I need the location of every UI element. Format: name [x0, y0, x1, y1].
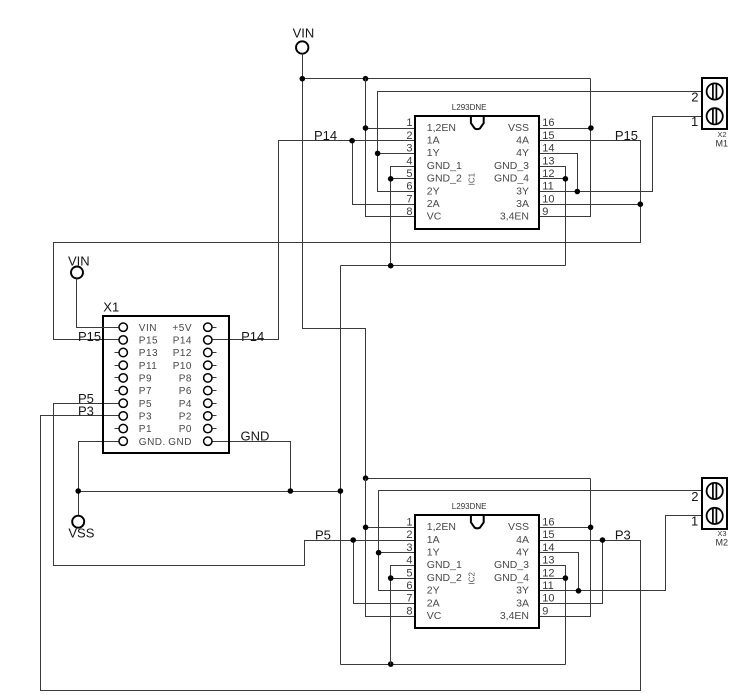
junction IC2 ground bus	[388, 661, 394, 667]
pin circle X1 right row P8	[204, 374, 212, 382]
svg-text:11: 11	[542, 580, 553, 592]
junction at IC2 pin12	[563, 575, 569, 581]
wire P15 branch IC1 pin10 (3A)	[540, 204, 641, 206]
svg-text:P5: P5	[139, 399, 152, 410]
svg-text:P14: P14	[314, 128, 337, 143]
svg-text:GND_2: GND_2	[427, 173, 462, 185]
X3 screw slot 1	[713, 508, 717, 524]
junction VIN at IC2 left column	[363, 475, 369, 481]
wire IC2 pin12 GND_4 stub	[540, 578, 566, 580]
wire IC1 pin4 GND_1 riser	[391, 167, 416, 266]
svg-text:VSS: VSS	[508, 521, 529, 533]
svg-text:P3: P3	[139, 412, 152, 423]
svg-text:8: 8	[406, 605, 412, 617]
svg-text:15: 15	[542, 130, 554, 142]
svg-text:2A: 2A	[427, 198, 440, 210]
junction P15 at IC1 pin10	[638, 201, 644, 207]
junction at IC1 pin1	[363, 125, 369, 131]
wire P5 from X1 pin P5 around left to IC2 pin2 (1A)	[54, 404, 416, 566]
svg-text:VC: VC	[427, 610, 442, 622]
svg-text:12: 12	[542, 168, 554, 180]
wire VIN to IC1 pin1 and pin8 (1,2EN / VC)	[366, 79, 416, 217]
pin circle X1 right row P12	[204, 348, 212, 356]
wire X2 pin1 to IC1 pin11 (3Y)	[540, 117, 703, 192]
wire IC1 pin1 stub	[366, 128, 416, 130]
junction at IC2 pin5	[388, 575, 394, 581]
supply symbol VSS (ground)	[72, 516, 84, 528]
svg-text:3Y: 3Y	[516, 185, 529, 197]
svg-text:P9: P9	[139, 374, 152, 385]
wire P15 from X1 pin P15 around left and to IC1 pin15 (4A)	[54, 141, 641, 340]
pin stub X1 P9	[115, 377, 119, 379]
svg-text:2: 2	[406, 130, 412, 142]
svg-text:4: 4	[406, 555, 412, 567]
wire IC2 pin4 GND_1 riser	[391, 566, 416, 665]
svg-text:L293DNE: L293DNE	[452, 502, 487, 511]
svg-text:P14: P14	[241, 329, 264, 344]
junction at IC1 pin16	[588, 125, 594, 131]
pin circle X1 left row P7	[119, 386, 127, 394]
X3 screw terminal 2 circle	[707, 483, 723, 499]
svg-text:GND_3: GND_3	[494, 160, 529, 172]
svg-text:P15: P15	[139, 336, 158, 347]
svg-text:GND_1: GND_1	[427, 160, 462, 172]
junction at IC2 pin16	[588, 525, 594, 531]
svg-text:P5: P5	[315, 528, 331, 543]
op-amp-style IC box IC1 L293DNE	[415, 116, 539, 229]
wire IC1 pin12 GND_4 stub	[540, 178, 566, 180]
wire IC2 pin13 GND_3 riser	[540, 566, 566, 665]
svg-text:3Y: 3Y	[516, 585, 529, 597]
svg-text:GND: GND	[168, 437, 192, 448]
svg-text:7: 7	[406, 193, 412, 205]
pin circle X1 left row P9	[119, 374, 127, 382]
pin stub X1 P0	[213, 428, 217, 430]
svg-text:3: 3	[406, 143, 412, 155]
pin circle X1 left row P5	[119, 399, 127, 407]
pin stub X1 P13	[115, 352, 119, 354]
wire ground tie vertical between IC1 and IC2 buses	[340, 266, 342, 665]
pin circle X1 left row P15	[119, 336, 127, 344]
svg-text:2A: 2A	[427, 597, 440, 609]
pin circle X1 right row P14	[204, 336, 212, 344]
wire IC2 pin16 stub	[540, 527, 591, 529]
svg-text:P11: P11	[139, 361, 158, 372]
svg-text:P14: P14	[173, 336, 192, 347]
svg-text:5: 5	[406, 567, 412, 579]
junction at IC2 pin3	[376, 550, 382, 556]
wire X3 pin2 to IC2 pin3/pin6 (1Y,2Y)	[379, 491, 703, 591]
terminal block X3 box	[702, 478, 727, 529]
svg-text:P6: P6	[179, 386, 192, 397]
wire IC2 pin3 stub	[379, 552, 416, 554]
terminal block X2 box	[702, 78, 727, 129]
svg-text:9: 9	[542, 605, 548, 617]
junction P5 at IC2 pin2	[350, 537, 356, 543]
svg-text:M2: M2	[716, 537, 729, 547]
wire X1 GND right pin down to ground line	[213, 442, 291, 492]
X3 screw terminal 1 circle	[707, 508, 723, 524]
svg-text:VIN: VIN	[293, 25, 315, 40]
wire P5 branch to IC2 pin7 (2A)	[354, 541, 416, 604]
svg-text:1A: 1A	[427, 135, 440, 147]
svg-text:1: 1	[406, 117, 412, 129]
svg-text:3,4EN: 3,4EN	[500, 610, 529, 622]
pin circle X1 left row P3	[119, 412, 127, 420]
junction at IC1 pin11	[575, 189, 581, 195]
svg-text:P2: P2	[179, 412, 192, 423]
svg-text:4Y: 4Y	[516, 547, 529, 559]
svg-text:GND_4: GND_4	[494, 572, 529, 584]
pin stub X1 P4	[213, 403, 217, 405]
wire VIN to IC2 pin16 and pin9	[540, 479, 591, 617]
X2 screw terminal 1 circle	[707, 108, 723, 124]
junction at IC1 pin3	[375, 151, 381, 157]
junction VIN branch to IC1 pin1 column	[363, 76, 369, 82]
svg-text:4: 4	[406, 155, 412, 167]
op-amp-style IC box IC2 L293DNE	[415, 515, 539, 628]
wire VIN supply to X1 VIN pin	[77, 279, 119, 328]
pin stub X1 P11	[115, 365, 119, 367]
svg-text:VC: VC	[427, 211, 442, 223]
pin circle X1 right row P6	[204, 386, 212, 394]
svg-text:GND.: GND.	[139, 437, 166, 448]
svg-text:10: 10	[542, 193, 554, 205]
svg-text:GND_3: GND_3	[494, 559, 529, 571]
pin circle X1 left row P13	[119, 348, 127, 356]
svg-text:7: 7	[406, 593, 412, 605]
wire P14 branch to IC1 pin7 (2A)	[353, 141, 416, 205]
junction P3 at IC2 pin15	[600, 537, 606, 543]
svg-text:14: 14	[542, 143, 554, 155]
svg-text:13: 13	[542, 155, 554, 167]
pin stub X1 P12	[213, 352, 217, 354]
pin stub X1 P1	[115, 428, 119, 430]
svg-text:IC2: IC2	[467, 572, 476, 585]
pin circle X1 left row P11	[119, 361, 127, 369]
svg-text:1Y: 1Y	[427, 147, 440, 159]
svg-text:1,2EN: 1,2EN	[427, 521, 456, 533]
wire IC1 pin3 stub	[378, 153, 416, 155]
wire VIN to IC2 pin1 and pin8	[366, 479, 416, 617]
svg-text:P3: P3	[615, 527, 631, 542]
wire P3 from X1 pin P3 around bottom to IC2 pin15 (4A)	[41, 416, 641, 691]
wire P14 from X1 pin P14 up to IC1 pin2 (1A)	[213, 141, 416, 340]
junction ground at X1 GND riser	[288, 488, 294, 494]
svg-text:5: 5	[406, 168, 412, 180]
pin circle X1 right row P10	[204, 361, 212, 369]
svg-text:P4: P4	[179, 399, 192, 410]
svg-text:P0: P0	[179, 424, 192, 435]
svg-text:M1: M1	[716, 138, 729, 148]
svg-text:2: 2	[691, 489, 698, 504]
svg-text:GND_1: GND_1	[427, 559, 462, 571]
svg-text:P12: P12	[173, 348, 192, 359]
svg-text:P8: P8	[179, 374, 192, 385]
X2 screw slot 2	[713, 83, 717, 99]
IC1 package notch	[471, 116, 484, 130]
pin circle X1 left row VIN	[119, 323, 127, 331]
pin circle X1 right row P4	[204, 399, 212, 407]
pin stub X1 P2	[213, 415, 217, 417]
svg-text:10: 10	[542, 593, 554, 605]
svg-text:13: 13	[542, 555, 554, 567]
pin circle X1 right row P2	[204, 412, 212, 420]
svg-text:2Y: 2Y	[427, 585, 440, 597]
svg-text:8: 8	[406, 206, 412, 218]
svg-text:P13: P13	[139, 348, 158, 359]
svg-text:6: 6	[406, 580, 412, 592]
junction at IC1 pin12	[563, 176, 569, 182]
wire P3 branch IC2 pin10 (3A)	[540, 541, 603, 604]
supply symbol VIN (left, near X1)	[71, 267, 83, 279]
svg-text:4A: 4A	[516, 534, 529, 546]
svg-text:P1: P1	[139, 424, 152, 435]
svg-text:GND_2: GND_2	[427, 572, 462, 584]
wire IC1 pin16 stub	[540, 128, 591, 130]
wire X2 pin2 to IC1 pin3/pin6 (1Y,2Y)	[378, 92, 703, 192]
junction ground at inter-IC tie	[338, 488, 344, 494]
wire VIN lower horizontal to IC2 right column	[366, 478, 591, 480]
svg-text:VIN: VIN	[139, 323, 157, 334]
pin stub X1 P10	[213, 365, 217, 367]
svg-text:L293DNE: L293DNE	[452, 103, 487, 112]
wire IC2 pin5 GND_2 stub	[391, 578, 416, 580]
svg-text:1,2EN: 1,2EN	[427, 122, 456, 134]
supply symbol VIN (top)	[296, 41, 308, 53]
X2 screw slot 1	[713, 108, 717, 124]
svg-text:11: 11	[542, 181, 553, 193]
wire VIN top horizontal bus	[303, 78, 591, 80]
junction ground at VSS drop	[75, 488, 81, 494]
svg-text:P15: P15	[615, 128, 638, 143]
wire VIN to IC1 pin16 and pin9 (VSS / 3,4EN)	[540, 79, 591, 217]
X2 screw terminal 2 circle	[707, 83, 723, 99]
wire IC2 pin14 (4Y) to pin11	[540, 553, 579, 591]
wire IC1 pin14 (4Y) to pin11	[540, 154, 578, 192]
junction P14 at IC1 pin2	[349, 138, 355, 144]
wire VIN vertical from top supply down with jog to IC2 column	[303, 54, 366, 479]
svg-text:+5V: +5V	[172, 323, 192, 334]
wire X3 pin1 to IC2 pin11 (3Y)	[540, 516, 703, 591]
svg-text:1: 1	[691, 514, 698, 529]
svg-text:3,4EN: 3,4EN	[500, 211, 529, 223]
wire IC1 pin13 GND_3 riser	[540, 167, 566, 266]
svg-text:VSS: VSS	[508, 122, 529, 134]
svg-text:3A: 3A	[516, 198, 529, 210]
IC2 package notch	[471, 515, 484, 529]
svg-text:1A: 1A	[427, 534, 440, 546]
svg-text:14: 14	[542, 542, 554, 554]
svg-text:16: 16	[542, 117, 554, 129]
svg-text:2: 2	[406, 529, 412, 541]
svg-text:12: 12	[542, 567, 554, 579]
svg-text:9: 9	[542, 206, 548, 218]
wire IC1 pin5 GND_2 stub	[391, 178, 416, 180]
pin circle X1 left row P1	[119, 424, 127, 432]
pin stub X1 +5V	[213, 327, 217, 329]
pin stub X1 P7	[115, 390, 119, 392]
wire main ground horizontal line	[79, 491, 341, 493]
svg-text:2: 2	[691, 90, 698, 105]
svg-text:2Y: 2Y	[427, 185, 440, 197]
wire IC1 ground bus horizontal	[341, 265, 566, 267]
svg-text:X1: X1	[103, 300, 119, 315]
svg-text:6: 6	[406, 181, 412, 193]
junction at IC1 pin5	[388, 176, 394, 182]
pin circle X1 right row GND	[204, 437, 212, 445]
pin stub X1 P6	[213, 390, 217, 392]
svg-text:GND_4: GND_4	[494, 173, 529, 185]
svg-text:3A: 3A	[516, 597, 529, 609]
svg-text:P7: P7	[139, 386, 152, 397]
svg-text:P3: P3	[78, 403, 94, 418]
svg-text:4A: 4A	[516, 135, 529, 147]
svg-text:P15: P15	[78, 329, 101, 344]
X3 screw slot 2	[713, 483, 717, 499]
svg-text:1: 1	[691, 114, 698, 129]
svg-text:16: 16	[542, 517, 554, 529]
svg-text:1Y: 1Y	[427, 547, 440, 559]
svg-text:P10: P10	[173, 361, 192, 372]
header X1 box	[103, 316, 229, 453]
junction at IC2 pin11	[576, 588, 582, 594]
svg-text:GND: GND	[241, 429, 270, 444]
svg-text:4Y: 4Y	[516, 147, 529, 159]
svg-text:IC1: IC1	[467, 172, 476, 185]
wire X1 GND left pin down to VSS	[79, 442, 119, 516]
svg-text:15: 15	[542, 529, 554, 541]
junction at IC2 pin1	[363, 525, 369, 531]
junction VIN at top vertical	[300, 76, 306, 82]
wire IC2 ground bus horizontal	[341, 664, 566, 666]
svg-text:1: 1	[406, 517, 412, 529]
svg-text:3: 3	[406, 542, 412, 554]
pin stub X1 P8	[213, 377, 217, 379]
pin circle X1 right row P0	[204, 424, 212, 432]
svg-text:VSS: VSS	[68, 526, 94, 541]
wire IC2 pin1 stub	[366, 527, 416, 529]
junction IC1 ground bus	[388, 263, 394, 269]
svg-text:VIN: VIN	[68, 254, 90, 269]
pin circle X1 right row +5V	[204, 323, 212, 331]
pin circle X1 left row GND.	[119, 437, 127, 445]
